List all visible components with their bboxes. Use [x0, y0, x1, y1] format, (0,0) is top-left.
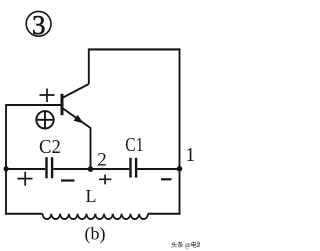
wire: right vertical rail	[179, 48, 181, 214]
svg-text:C2: C2	[39, 136, 61, 158]
polarity + left of C2	[18, 172, 33, 186]
wire: capacitor row left segment	[6, 168, 45, 170]
wire: left vertical rail	[5, 104, 7, 215]
wire: top rail	[89, 48, 181, 50]
svg-text:3: 3	[32, 10, 46, 40]
wire: emitter vertical to node 2	[90, 128, 92, 170]
svg-text:(b): (b)	[85, 224, 106, 245]
wire: collector diagonal to transistor	[63, 84, 89, 98]
signal source circle with cross	[36, 111, 53, 128]
transistor Q1 emitter diagonal	[63, 109, 91, 129]
svg-text:头条 @电路图: 头条 @电路图	[171, 241, 200, 249]
wire: capacitor row middle segment	[53, 168, 129, 170]
node 1 junction dot	[177, 166, 183, 172]
capacitor C2 plates	[47, 157, 53, 178]
inductor L coil	[43, 214, 148, 219]
wire: bottom left segment	[5, 213, 42, 215]
wire: collector vertical drop	[88, 48, 90, 84]
polarity - left of node 1	[161, 178, 172, 180]
polarity - right of C2	[61, 179, 75, 181]
svg-text:1: 1	[185, 144, 195, 166]
instantaneous polarity + at base	[40, 89, 55, 103]
svg-text:2: 2	[97, 150, 107, 171]
wire: capacitor row right segment	[137, 168, 179, 170]
svg-text:C1: C1	[125, 134, 143, 156]
capacitor C1 plates	[131, 158, 137, 178]
node junction dot on left rail	[4, 166, 9, 171]
wire: base wire from left rail to transistor base	[6, 104, 62, 106]
transistor Q1 emitter arrow	[74, 115, 84, 124]
figure number badge 3	[26, 11, 51, 36]
svg-text:L: L	[86, 186, 97, 206]
node 2 junction dot	[88, 166, 94, 172]
polarity + right of node 2	[99, 175, 111, 185]
transistor Q1 base bar	[61, 94, 64, 115]
wire: bottom right segment	[148, 213, 180, 215]
